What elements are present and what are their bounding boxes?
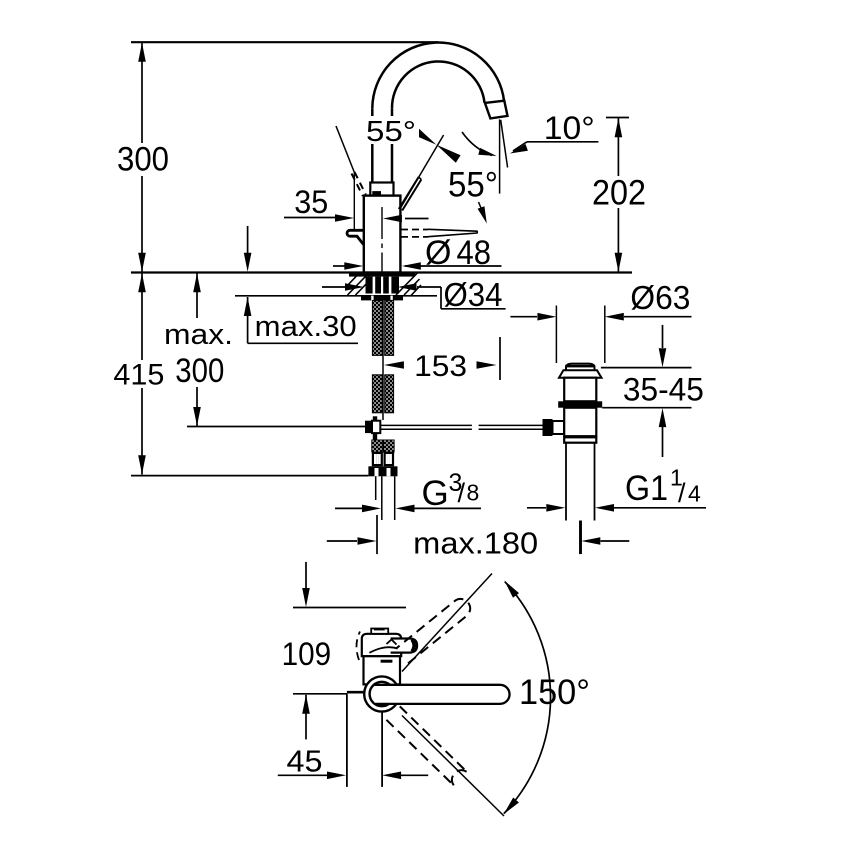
svg-text:4: 4 [688, 481, 701, 507]
collar black mark [372, 191, 381, 195]
dimension diameter 48 [333, 265, 345, 267]
415 bottom reference line [131, 475, 368, 477]
drain bottom ring [564, 437, 596, 442]
spout tip tilted stream line [501, 120, 508, 168]
plan cap tab [371, 629, 388, 634]
svg-text:Ø: Ø [425, 234, 451, 272]
spout outer arc [372, 43, 504, 109]
pull rod right segment [381, 424, 472, 426]
dimension 35-45 [601, 367, 692, 369]
second 55 leader arrow [479, 202, 484, 214]
plan front reference line [293, 693, 347, 695]
drain center extension [580, 521, 582, 555]
left 55-degree datum line [336, 126, 355, 174]
rod clamp [543, 419, 553, 436]
svg-text:G: G [422, 474, 449, 513]
ledge tick [347, 691, 363, 694]
angle leg lower [402, 716, 504, 817]
hose end fittings [372, 440, 383, 452]
dimension 300 vertical line [141, 42, 143, 143]
svg-text:10°: 10° [544, 110, 595, 146]
dimension G114 [527, 507, 546, 509]
spout tube right edge [391, 108, 394, 183]
svg-text:48: 48 [457, 234, 492, 272]
plan tube left line [346, 694, 348, 787]
pivot inner circle [370, 682, 394, 706]
plan shoulder arcs [356, 632, 360, 661]
drain locknut [558, 401, 602, 407]
svg-text:150°: 150° [519, 673, 590, 712]
svg-text:35-45: 35-45 [623, 372, 704, 408]
phantom lever wedge [428, 229, 477, 236]
max30 upper arrow [247, 226, 249, 253]
max30 leader [244, 297, 252, 316]
lever axis leader line [401, 135, 444, 208]
55 degree opposing arrows [412, 127, 436, 145]
svg-text:45: 45 [287, 743, 323, 778]
svg-text:Ø34: Ø34 [444, 276, 503, 313]
hose centerline [382, 300, 384, 420]
body centerline [381, 207, 383, 239]
fixing washer band [361, 296, 403, 301]
dimension 109 [305, 562, 307, 588]
phantom lever lower [386, 706, 467, 786]
top reference line [131, 41, 438, 43]
counter bottom line [235, 295, 437, 297]
countertop line [131, 271, 632, 273]
swivel 55 arc [462, 132, 492, 156]
escutcheon flange [349, 273, 415, 277]
spout tube left edge [371, 108, 374, 183]
plan body cap [362, 634, 401, 656]
braided hose pattern upper [372, 300, 382, 355]
angle leg upper [402, 574, 492, 672]
svg-text:8: 8 [467, 479, 480, 505]
spout tip vertical datum [499, 119, 501, 193]
35 extension line [353, 173, 355, 230]
plan back reference line [293, 607, 406, 609]
pivot outer circle [364, 676, 399, 711]
supply pipe lines [375, 476, 377, 500]
dimension G38 [335, 507, 362, 509]
svg-text:300: 300 [175, 352, 224, 390]
svg-text:/: / [678, 478, 686, 508]
svg-text:415: 415 [113, 359, 164, 392]
mounting nut [366, 277, 400, 294]
phantom lever upper [396, 599, 470, 663]
dimension 45 [278, 774, 327, 776]
spout inner arc [392, 61, 485, 108]
dimension 415 vertical line [141, 273, 143, 361]
label 55 first [363, 116, 419, 144]
dimension 35 [284, 217, 347, 219]
dimension diameter 34 [322, 286, 345, 288]
10 degree leader line [527, 141, 599, 143]
pull rod left segment [187, 426, 365, 428]
plan shoulder curve [369, 647, 397, 653]
svg-text:55°: 55° [366, 116, 416, 148]
handle lever rod (raised) [399, 177, 419, 209]
plan tube right line [381, 712, 383, 787]
phantom lever horizontal dashes [401, 229, 428, 231]
svg-text:153: 153 [414, 350, 467, 383]
collar [370, 183, 393, 196]
svg-text:/: / [458, 478, 466, 508]
rod joint block [373, 416, 377, 421]
svg-text:202: 202 [592, 174, 646, 213]
svg-text:300: 300 [117, 141, 169, 179]
drain body upper [564, 378, 596, 402]
plan notch [381, 660, 393, 663]
svg-text:max.180: max.180 [413, 526, 538, 561]
drain pull knob [347, 230, 364, 244]
lever solid [375, 685, 510, 704]
faucet body [364, 196, 401, 273]
plan mid section [364, 656, 401, 684]
svg-text:G1: G1 [625, 469, 668, 508]
svg-text:max.: max. [164, 319, 233, 351]
drain plug cap [566, 364, 595, 370]
svg-text:35: 35 [294, 184, 328, 220]
svg-text:109: 109 [282, 636, 332, 672]
plan boss detail [387, 640, 397, 645]
svg-text:55°: 55° [448, 166, 498, 205]
aerator outlet [485, 101, 508, 119]
dimension 202 [606, 117, 629, 119]
plan lever boss [391, 639, 418, 653]
drain body lower [564, 408, 596, 437]
dimension max180 [376, 515, 378, 554]
supply nuts [368, 466, 397, 476]
dimension diameter 63 [555, 306, 557, 364]
counter hatching left [348, 273, 370, 295]
drain tailpipe [565, 443, 567, 521]
dimension 153 [384, 361, 404, 369]
svg-text:Ø63: Ø63 [630, 279, 690, 316]
svg-text:max.30: max.30 [255, 311, 357, 343]
dimension max300 vertical line [196, 273, 198, 319]
swing arc 150 [504, 582, 551, 814]
hidden lever dashes left [355, 172, 366, 195]
drain flange [559, 370, 602, 377]
counter hatching right [396, 273, 418, 295]
